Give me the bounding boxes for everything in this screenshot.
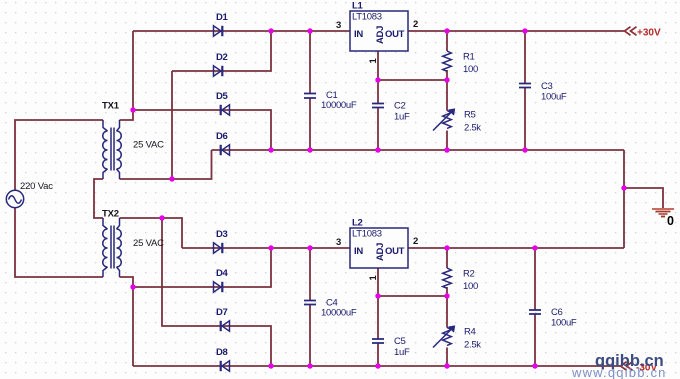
junction C4 bottom on -30V rail	[307, 363, 312, 368]
svg-text:10000uF: 10000uF	[321, 308, 357, 319]
svg-text:2: 2	[413, 236, 418, 247]
capacitor C3	[519, 84, 531, 88]
diode D7	[221, 321, 230, 331]
wire: vertical from top rail to node (133,110)	[132, 31, 134, 110]
wire: vertical from D2 anode to TX1 secondary bottom rail	[171, 71, 173, 179]
svg-text:C2: C2	[394, 101, 406, 112]
ground symbol 0	[652, 209, 674, 217]
wire: C6 bottom lead	[534, 314, 536, 366]
diode D5	[221, 105, 230, 115]
wire: R1 top lead	[446, 31, 448, 51]
wire: R4 top lead	[446, 296, 448, 328]
svg-text:R5: R5	[464, 110, 476, 121]
junction L2 ADJ / C5 top	[375, 293, 380, 298]
junction C1 top on +rail	[307, 28, 312, 33]
wire: L2 ADJ pin down to node (378,296) and over to R2 bottom	[378, 268, 447, 296]
wire: node (133,287) down to bottom rail at D8	[132, 287, 134, 366]
svg-text:D4: D4	[216, 268, 229, 279]
AC source V1 220 Vac	[6, 190, 23, 207]
svg-text:3: 3	[336, 20, 341, 31]
svg-text:D8: D8	[216, 347, 228, 358]
wire: TX1 secondary bottom rail up to D6 row	[120, 150, 212, 179]
svg-text:D6: D6	[216, 131, 228, 142]
wire: L1 ADJ pin down to node (378,80) and over to R1 bottom	[378, 51, 447, 80]
diode D8	[221, 361, 230, 371]
svg-text:1: 1	[368, 275, 379, 281]
wire: AC source top lead up and right to TX1 primary	[15, 120, 103, 190]
capacitor C6	[529, 310, 541, 314]
svg-text:C3: C3	[541, 81, 553, 92]
svg-text:1: 1	[368, 58, 379, 64]
svg-text:220 Vac: 220 Vac	[20, 181, 53, 192]
junction D3/D4 cathodes on L2 input rail	[268, 245, 273, 250]
wire: TX1 secondary top to node at (133,110)	[120, 110, 134, 120]
wire: D2 row from vertical x172, cathode side up to top rail	[172, 31, 271, 71]
svg-text:D1: D1	[216, 12, 229, 23]
svg-text:L2: L2	[352, 218, 363, 229]
resistor R1	[443, 51, 452, 71]
junction C3 bottom on 0V rail	[522, 147, 527, 152]
resistor R2	[443, 268, 452, 288]
wire: D4 row, cathode side up to D3 rail	[133, 248, 271, 287]
wire: right vertical joining mid rail, ground and L2 OUT rail	[623, 150, 625, 248]
junction TX2 secondary top / D3 / D7	[159, 215, 164, 220]
svg-text:ADJ: ADJ	[375, 26, 386, 44]
svg-text:C6: C6	[551, 307, 563, 318]
svg-text:TX1: TX1	[102, 101, 120, 112]
junction ground tap	[621, 185, 626, 190]
junction R4 bottom on -30V rail	[444, 363, 449, 368]
junction D5 anode on 0V rail	[268, 147, 273, 152]
svg-text:D2: D2	[216, 52, 228, 63]
junction C2 bottom on 0V rail	[375, 147, 380, 152]
svg-text:D3: D3	[216, 229, 228, 240]
svg-text:OUT: OUT	[385, 246, 405, 257]
junction C5 bottom on -30V rail	[375, 363, 380, 368]
junction TX1 secondary bottom / D2 anode	[169, 176, 174, 181]
wire: R4 bottom lead	[446, 348, 448, 367]
junction R2 top on L2 output rail	[444, 245, 449, 250]
wire: L2 OUT rail to right vertical	[408, 247, 624, 249]
svg-text:2: 2	[413, 19, 418, 30]
junction C1 bottom on 0V rail	[307, 147, 312, 152]
svg-text:1uF: 1uF	[394, 112, 410, 123]
diode D3	[214, 243, 223, 253]
junction TX1 secondary top / D1 / D5	[130, 107, 135, 112]
diode D4	[214, 282, 223, 292]
transformer TX1	[103, 120, 122, 179]
svg-text:25 VAC: 25 VAC	[133, 238, 164, 249]
svg-text:D7: D7	[216, 307, 228, 318]
svg-text:IN: IN	[354, 246, 363, 257]
svg-text:IN: IN	[354, 29, 363, 40]
wire: R5 bottom lead	[446, 131, 448, 151]
wire: top rail from node (133,31) through D1 to L1 IN pin 3	[133, 30, 350, 32]
svg-text:LT1083: LT1083	[352, 12, 382, 23]
svg-text:+30V: +30V	[637, 28, 661, 39]
svg-text:C5: C5	[394, 336, 406, 347]
junction R1 bottom / R5 top	[444, 77, 449, 82]
junction TX2 secondary bottom / D4 anode	[130, 284, 135, 289]
wire: TX2 secondary bottom to node (133,287)	[120, 277, 134, 287]
regulator L2 LT1083	[336, 218, 418, 281]
wire: D5 row from node (133,110), anode side down to mid rail	[133, 110, 271, 150]
junction D1/D2 cathodes on +rail	[268, 28, 273, 33]
wire: R2 top lead	[446, 248, 448, 268]
port -30V	[621, 362, 633, 371]
wire: C3 bottom lead	[524, 88, 526, 151]
svg-text:1uF: 1uF	[394, 347, 410, 358]
svg-text:L1: L1	[352, 1, 364, 12]
diode D6	[221, 145, 230, 155]
wire: ground stub	[624, 188, 663, 208]
capacitor C5	[372, 339, 384, 343]
svg-text:100uF: 100uF	[551, 318, 577, 329]
capacitor C2	[372, 104, 384, 108]
wire: bottom rail (-30V) through D8 to port	[133, 365, 620, 367]
wire: C5 top lead	[377, 296, 379, 339]
wire: C6 top lead	[534, 248, 536, 310]
svg-text:100: 100	[463, 281, 478, 292]
potentiometer R5	[433, 109, 454, 130]
junction L1 ADJ / C2 top	[375, 77, 380, 82]
junction C4 top on L2 input rail	[307, 245, 312, 250]
svg-text:0: 0	[667, 214, 674, 228]
junction C6 top on L2 output rail	[532, 245, 537, 250]
junction R2 bottom / R4 top	[444, 293, 449, 298]
wire: vertical x162 from TX2 top node down along D7 row, anode side down to bottom rail	[162, 218, 271, 366]
junction R5 bottom on 0V rail	[444, 147, 449, 152]
junction C6 bottom on -30V rail	[532, 363, 537, 368]
svg-text:10000uF: 10000uF	[321, 100, 357, 111]
svg-text:25 VAC: 25 VAC	[133, 140, 164, 151]
wire: mid rail (0V) through D6 to right edge vertical	[212, 149, 625, 151]
svg-text:R1: R1	[463, 52, 475, 63]
svg-text:D5: D5	[216, 91, 229, 102]
regulator L1 LT1083	[336, 1, 418, 64]
port +30V	[625, 27, 637, 36]
svg-text:OUT: OUT	[385, 29, 405, 40]
wire: D3 row to L2 IN pin 3	[182, 247, 350, 249]
svg-text:ADJ: ADJ	[375, 243, 386, 261]
svg-text:2.5k: 2.5k	[464, 340, 481, 351]
wire: C4 bottom lead	[309, 305, 311, 367]
wire: C3 top lead	[524, 31, 526, 84]
svg-text:TX2: TX2	[102, 209, 119, 220]
wire: top rail L1 OUT pin 2 to +30V port	[408, 30, 624, 32]
svg-text:R2: R2	[463, 269, 475, 280]
wire: AC source bottom lead down and right to TX2 primary bottom	[15, 208, 103, 277]
wire: C4 top lead	[309, 248, 311, 301]
wire: R5 top lead	[446, 80, 448, 111]
svg-text:www.qqibb.cn: www.qqibb.cn	[571, 365, 667, 379]
capacitor C1	[304, 94, 316, 99]
wire: TX1 primary bottom to TX2 primary top link	[94, 179, 103, 218]
transformer TX2	[103, 218, 122, 277]
wire: TX2 secondary top down to D3 row	[120, 218, 183, 248]
wire: R2 bottom lead	[446, 287, 448, 296]
wire: C5 bottom lead	[377, 343, 379, 366]
svg-text:R4: R4	[464, 327, 476, 338]
junction R1 top on +30V rail	[444, 28, 449, 33]
wire: R1 bottom lead	[446, 70, 448, 80]
wire: C1 top lead	[309, 31, 311, 94]
wire: C2 top lead	[377, 80, 379, 104]
wire: C2 bottom lead	[377, 108, 379, 151]
svg-text:LT1083: LT1083	[352, 229, 382, 240]
wire: C1 bottom lead	[309, 98, 311, 150]
diode D1	[214, 26, 223, 36]
capacitor C4	[304, 301, 316, 305]
diode D2	[214, 66, 223, 76]
svg-text:100: 100	[463, 64, 478, 75]
svg-text:2.5k: 2.5k	[464, 123, 481, 134]
potentiometer R4	[433, 326, 454, 347]
junction D7 anode on -30V rail	[268, 363, 273, 368]
junction C3 top on +30V rail	[522, 28, 527, 33]
svg-text:100uF: 100uF	[541, 92, 567, 103]
svg-text:3: 3	[336, 237, 341, 248]
